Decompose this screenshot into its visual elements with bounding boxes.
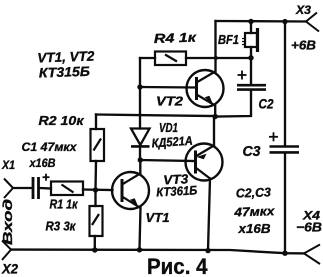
wire bottom rail <box>11 250 304 254</box>
wire R2 bottom lead <box>94 161 97 190</box>
svg-text:R1 1к: R1 1к <box>50 198 79 212</box>
wire R2 top lead <box>95 115 97 130</box>
terminal X1 <box>4 179 13 199</box>
capacitor C2 <box>237 71 266 90</box>
wire node A to VT3 base <box>140 160 196 161</box>
svg-text:х16В: х16В <box>237 222 270 236</box>
wire VT2 collector to rail <box>214 21 216 72</box>
svg-text:КТ361Б: КТ361Б <box>156 183 198 199</box>
svg-text:Рис. 4: Рис. 4 <box>147 254 208 277</box>
svg-text:КТ315Б: КТ315Б <box>39 64 91 81</box>
resistor R1 <box>51 182 83 196</box>
wire right rail lower segment <box>284 154 286 254</box>
svg-text:VT1: VT1 <box>146 210 170 225</box>
svg-text:C2: C2 <box>259 97 274 112</box>
junction right rail bottom <box>282 251 287 256</box>
svg-text:X1: X1 <box>1 158 15 172</box>
wire X1 to C1 <box>13 187 32 189</box>
wire BF1 bottom lead <box>250 47 252 58</box>
svg-text:+6В: +6В <box>291 38 316 53</box>
svg-text:VT2: VT2 <box>156 94 184 109</box>
wire VT2 emitter to output node <box>214 106 216 117</box>
earphone BF1 <box>242 28 258 52</box>
wire R1 to VT1 base <box>83 188 113 191</box>
wire VT3 emitter to output node <box>213 117 215 146</box>
svg-text:C1 47мкх: C1 47мкх <box>22 140 78 154</box>
svg-text:−6В: −6В <box>296 220 322 235</box>
junction R4/BF1 crossing <box>214 56 218 60</box>
capacitor C3 <box>269 132 299 152</box>
wire R3 top lead <box>94 190 96 206</box>
junction right rail top <box>282 19 287 24</box>
wire R4/VT2-base/VD1 vertical <box>139 58 141 129</box>
wire right rail upper segment <box>284 22 286 145</box>
svg-text:Вход: Вход <box>0 199 15 245</box>
junction node A (VT1 collector / VD1 / VT3 base) <box>138 157 143 162</box>
svg-text:BF1: BF1 <box>218 33 239 47</box>
svg-text:VD1: VD1 <box>159 121 178 135</box>
transistor VT2 <box>187 70 224 107</box>
terminal X3 <box>306 13 319 32</box>
junction VT1 emitter ground <box>137 247 142 252</box>
svg-text:R3 3к: R3 3к <box>46 220 77 234</box>
svg-text:C2,C3: C2,C3 <box>236 185 272 200</box>
svg-text:КД521А: КД521А <box>151 134 193 151</box>
junction VT2 base node <box>137 84 142 89</box>
junction R3 ground <box>92 247 97 252</box>
svg-text:C3: C3 <box>243 144 261 160</box>
wire VT1 collector to node A <box>139 160 141 174</box>
wire VT1 emitter to ground rail <box>140 208 141 250</box>
wire R3 bottom lead <box>94 236 96 250</box>
svg-text:X3: X3 <box>295 3 311 17</box>
svg-text:47мкх: 47мкх <box>233 204 276 219</box>
svg-text:X2: X2 <box>1 262 18 277</box>
svg-text:R4 1к: R4 1к <box>154 29 198 46</box>
resistor R2 <box>91 129 105 161</box>
wire VT3 collector to ground rail <box>208 179 210 251</box>
junction BF1 bottom / C2 top <box>248 55 253 60</box>
svg-text:R2 10к: R2 10к <box>39 113 86 128</box>
junction BF1 top <box>248 19 253 24</box>
terminal X4 <box>304 245 320 265</box>
wire R4 left lead <box>140 57 155 59</box>
wire output node to C2 bottom <box>215 91 251 117</box>
transistor VT3 <box>186 144 223 181</box>
junction VT1 base node <box>93 187 98 192</box>
wire C1 to R1 <box>41 187 52 190</box>
wire VD1 cathode lead <box>139 148 141 161</box>
terminal X2 <box>2 241 11 261</box>
transistor VT1 <box>112 172 149 209</box>
wire BF1 top lead <box>250 22 252 34</box>
resistor R3 <box>90 206 103 236</box>
svg-text:х16В: х16В <box>29 156 56 170</box>
resistor R4 <box>155 52 186 66</box>
diode VD1 <box>131 129 150 147</box>
wire R2 top to output node <box>96 115 215 117</box>
wire top +6V rail <box>216 20 307 23</box>
junction output node <box>213 114 218 119</box>
capacitor C1 <box>33 174 50 199</box>
wire R4 right lead to BF1 bottom <box>186 57 251 59</box>
wire VT2 base <box>140 86 197 89</box>
junction VT3 collector ground <box>205 248 210 253</box>
wire C2 top lead <box>250 58 252 84</box>
